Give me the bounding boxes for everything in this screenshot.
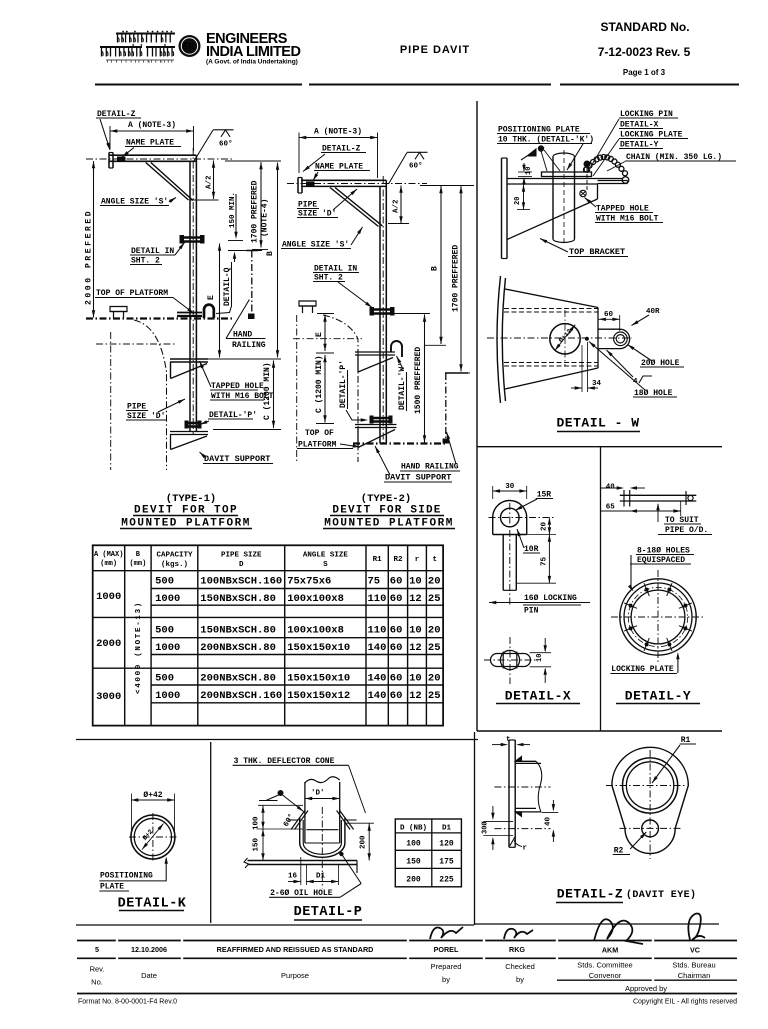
svg-text:Ø+42: Ø+42: [143, 791, 162, 800]
svg-text:40: 40: [545, 816, 553, 826]
svg-text:1000: 1000: [96, 591, 121, 603]
svg-text:AKM: AKM: [602, 946, 618, 955]
svg-text:75x75x6: 75x75x6: [287, 576, 331, 588]
svg-text:Prepared: Prepared: [431, 962, 462, 971]
svg-text:POREL: POREL: [434, 945, 459, 954]
svg-text:1000: 1000: [155, 593, 180, 605]
svg-text:Stds. Committee: Stds. Committee: [577, 961, 632, 970]
svg-text:(DAVIT EYE): (DAVIT EYE): [626, 889, 696, 901]
svg-text:Chairman: Chairman: [678, 971, 711, 980]
svg-text:DAVIT SUPPORT: DAVIT SUPPORT: [204, 454, 270, 464]
svg-text:DETAIL-Q: DETAIL-Q: [223, 267, 232, 306]
svg-text:C (1200 MIN): C (1200 MIN): [263, 362, 272, 420]
svg-text:DETAIL-K: DETAIL-K: [118, 897, 187, 912]
svg-text:75: 75: [368, 576, 381, 588]
svg-text:TOP BRACKET: TOP BRACKET: [569, 247, 625, 257]
svg-text:20: 20: [541, 521, 549, 531]
svg-text:Page 1 of 3: Page 1 of 3: [623, 68, 666, 77]
svg-text:500: 500: [155, 625, 174, 637]
svg-text:25: 25: [428, 642, 441, 654]
svg-text:E: E: [315, 332, 324, 337]
svg-text:HAND RAILING: HAND RAILING: [401, 463, 459, 472]
svg-text:CAPACITY: CAPACITY: [156, 552, 193, 560]
svg-text:500: 500: [155, 673, 174, 685]
svg-text:PIPE SIZE: PIPE SIZE: [221, 552, 262, 560]
svg-text:RKG: RKG: [509, 945, 525, 954]
svg-text:1000: 1000: [155, 690, 180, 702]
svg-text:16Ø LOCKING: 16Ø LOCKING: [524, 594, 577, 603]
svg-text:DETAIL-'W': DETAIL-'W': [398, 362, 407, 410]
svg-text:60: 60: [390, 576, 403, 588]
svg-text:r: r: [415, 556, 420, 564]
svg-text:200NBxSCH.80: 200NBxSCH.80: [200, 642, 276, 654]
svg-text:10: 10: [536, 654, 544, 662]
svg-text:500: 500: [155, 576, 174, 588]
svg-text:DETAIL - W: DETAIL - W: [556, 416, 639, 431]
svg-text:C (1200 MIN): C (1200 MIN): [315, 355, 324, 413]
svg-text:TOP OF PLATFORM: TOP OF PLATFORM: [96, 289, 168, 298]
svg-text:60: 60: [390, 690, 403, 702]
svg-text:<4000 (NOTE-13): <4000 (NOTE-13): [135, 601, 143, 694]
svg-text:2-6Ø OIL HOLE: 2-6Ø OIL HOLE: [270, 889, 333, 898]
svg-text:RAILING: RAILING: [232, 341, 266, 350]
svg-text:60: 60: [390, 642, 403, 654]
svg-text:A (NOTE-3): A (NOTE-3): [314, 128, 362, 137]
svg-text:200: 200: [360, 835, 368, 849]
svg-text:60: 60: [390, 625, 403, 637]
svg-text:20: 20: [428, 625, 441, 637]
svg-text:Copyright EIL - All rights res: Copyright EIL - All rights reserved: [633, 999, 737, 1006]
svg-text:175: 175: [439, 858, 454, 867]
svg-text:A (MAX): A (MAX): [94, 551, 123, 559]
svg-text:by: by: [516, 975, 524, 984]
svg-text:140: 140: [368, 642, 387, 654]
svg-text:D1: D1: [316, 873, 326, 881]
svg-text:(mm): (mm): [100, 560, 117, 568]
svg-text:150x150x10: 150x150x10: [287, 673, 350, 685]
svg-text:(TYPE-1): (TYPE-1): [166, 493, 216, 505]
svg-text:R1: R1: [373, 556, 383, 564]
svg-text:r: r: [523, 845, 528, 853]
svg-text:VC: VC: [690, 946, 700, 955]
svg-text:S: S: [323, 561, 328, 569]
svg-text:(NOTE-4): (NOTE-4): [261, 199, 270, 237]
svg-text:12: 12: [409, 642, 422, 654]
svg-text:DETAIL-Z: DETAIL-Z: [557, 887, 623, 902]
svg-text:No.: No.: [91, 978, 103, 987]
svg-text:25: 25: [428, 593, 441, 605]
svg-text:REAFFIRMED AND REISSUED AS STA: REAFFIRMED AND REISSUED AS STANDARD: [217, 945, 374, 954]
svg-text:'D': 'D': [311, 790, 325, 798]
svg-text:A/2: A/2: [393, 199, 401, 213]
svg-text:PLATE: PLATE: [100, 883, 124, 892]
svg-text:25: 25: [428, 690, 441, 702]
svg-text:B: B: [266, 251, 275, 256]
svg-text:1000: 1000: [155, 642, 180, 654]
svg-text:Stds. Bureau: Stds. Bureau: [672, 961, 715, 970]
svg-text:Checked: Checked: [505, 962, 535, 971]
svg-text:120: 120: [439, 840, 454, 849]
svg-text:1700 PREFFERED: 1700 PREFFERED: [452, 245, 461, 312]
svg-text:Rev.: Rev.: [90, 965, 105, 974]
svg-text:R2: R2: [393, 556, 403, 564]
svg-text:DETAIL-X: DETAIL-X: [505, 689, 571, 704]
svg-text:3000: 3000: [96, 691, 121, 703]
svg-text:DEVIT FOR SIDE: DEVIT FOR SIDE: [332, 505, 441, 517]
svg-text:PIN: PIN: [524, 607, 539, 616]
svg-text:10: 10: [409, 625, 422, 637]
svg-text:60: 60: [390, 593, 403, 605]
svg-text:(TYPE-2): (TYPE-2): [361, 493, 411, 505]
svg-text:Approved by: Approved by: [625, 984, 667, 993]
svg-text:(mm): (mm): [129, 560, 146, 568]
svg-text:DEVIT FOR TOP: DEVIT FOR TOP: [134, 505, 238, 517]
svg-text:DETAIL-'P': DETAIL-'P': [339, 360, 348, 408]
svg-text:EIL: EIL: [182, 42, 196, 52]
svg-text:7-12-0023 Rev. 5: 7-12-0023 Rev. 5: [598, 45, 691, 59]
svg-text:100x100x8: 100x100x8: [287, 593, 344, 605]
svg-text:LOCKING PLATE: LOCKING PLATE: [611, 665, 674, 674]
svg-text:Purpose: Purpose: [281, 971, 309, 980]
svg-text:150: 150: [253, 837, 261, 851]
svg-text:10: 10: [409, 576, 422, 588]
svg-text:1500 PREFFERED: 1500 PREFFERED: [414, 347, 423, 414]
svg-text:60: 60: [390, 673, 403, 685]
svg-text:DETAIL-Y: DETAIL-Y: [625, 689, 691, 704]
svg-text:20: 20: [428, 576, 441, 588]
svg-text:65: 65: [606, 504, 616, 512]
svg-text:DAVIT SUPPORT: DAVIT SUPPORT: [385, 473, 451, 483]
svg-text:40R: 40R: [646, 308, 660, 316]
svg-text:12.10.2006: 12.10.2006: [131, 945, 167, 954]
svg-text:60°: 60°: [409, 162, 423, 171]
svg-text:12: 12: [409, 593, 422, 605]
svg-text:150x150x12: 150x150x12: [287, 690, 350, 702]
svg-text:E: E: [207, 295, 216, 300]
svg-text:20: 20: [428, 673, 441, 685]
svg-text:140: 140: [368, 690, 387, 702]
svg-text:30: 30: [505, 483, 515, 491]
svg-text:10: 10: [525, 167, 533, 175]
svg-text:B: B: [431, 266, 440, 271]
svg-text:2000: 2000: [96, 638, 121, 650]
svg-text:MOUNTED PLATFORM: MOUNTED PLATFORM: [121, 518, 251, 530]
svg-text:10: 10: [409, 673, 422, 685]
svg-text:200NBxSCH.80: 200NBxSCH.80: [200, 673, 276, 685]
svg-text:by: by: [442, 975, 450, 984]
svg-text:MOUNTED PLATFORM: MOUNTED PLATFORM: [324, 518, 454, 530]
svg-text:20: 20: [514, 197, 522, 205]
svg-text:Date: Date: [141, 971, 157, 980]
svg-text:100NBxSCH.160: 100NBxSCH.160: [200, 576, 282, 588]
svg-text:140: 140: [368, 673, 387, 685]
svg-text:40: 40: [606, 484, 616, 492]
svg-text:200NBxSCH.160: 200NBxSCH.160: [200, 690, 282, 702]
svg-text:16: 16: [288, 873, 298, 881]
svg-text:DETAIL-P: DETAIL-P: [294, 905, 363, 920]
svg-text:A/2: A/2: [206, 175, 214, 189]
svg-text:150: 150: [406, 858, 421, 867]
svg-text:(A Govt. of India Undertaking): (A Govt. of India Undertaking): [206, 59, 298, 66]
svg-text:PIPE O/D.: PIPE O/D.: [665, 526, 708, 535]
svg-text:150NBxSCH.80: 150NBxSCH.80: [200, 625, 276, 637]
svg-text:1700 PREFERED: 1700 PREFERED: [251, 180, 260, 243]
svg-text:Convenor: Convenor: [589, 971, 622, 980]
svg-text:150NBxSCH.80: 150NBxSCH.80: [200, 593, 276, 605]
svg-text:D (NB): D (NB): [400, 825, 427, 833]
svg-text:STANDARD No.: STANDARD No.: [600, 20, 689, 34]
svg-text:100x100x8: 100x100x8: [287, 625, 344, 637]
svg-text:12: 12: [409, 690, 422, 702]
svg-text:3 THK. DEFLECTOR CONE: 3 THK. DEFLECTOR CONE: [234, 757, 335, 766]
svg-text:100: 100: [253, 816, 261, 830]
svg-text:2000 PREFERED: 2000 PREFERED: [85, 209, 94, 305]
svg-text:110: 110: [368, 625, 387, 637]
svg-text:(kgs.): (kgs.): [161, 561, 188, 569]
svg-text:60°: 60°: [219, 140, 233, 149]
svg-text:t: t: [432, 556, 437, 564]
svg-text:75: 75: [541, 556, 549, 566]
svg-text:A (NOTE-3): A (NOTE-3): [128, 121, 176, 130]
svg-text:PIPE DAVIT: PIPE DAVIT: [400, 44, 470, 56]
svg-text:200: 200: [406, 876, 421, 885]
svg-text:110: 110: [368, 593, 387, 605]
svg-text:Format No. 8-00-0001-F4 Rev.0: Format No. 8-00-0001-F4 Rev.0: [78, 999, 177, 1006]
svg-text:5: 5: [95, 945, 99, 954]
svg-text:ANGLE SIZE: ANGLE SIZE: [303, 552, 349, 560]
svg-text:D: D: [239, 561, 244, 569]
svg-text:30Ø: 30Ø: [481, 821, 490, 834]
svg-text:100: 100: [406, 840, 421, 849]
svg-text:150x150x10: 150x150x10: [287, 642, 350, 654]
svg-text:D1: D1: [442, 825, 452, 833]
svg-text:225: 225: [439, 876, 454, 885]
svg-text:POSITIONING: POSITIONING: [100, 872, 153, 881]
svg-text:TOP OF: TOP OF: [305, 429, 334, 438]
